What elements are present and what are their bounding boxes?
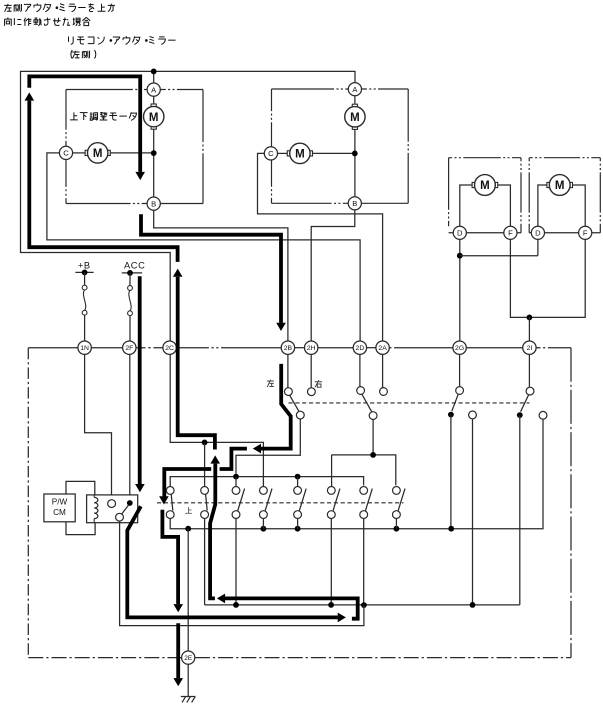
wire 2C down to column feed line y=442.4 feeding switch columns 2 and 4 [170,354,263,486]
mirror switch unit boundary right edge [570,348,572,658]
wire B left mirror to 2B: down, right along y=227.9, down to 2B [154,210,288,341]
wire C to horizontal motor M left mirror [73,152,88,154]
svg-text:D: D [535,229,541,238]
svg-text:ACC: ACC [124,261,145,271]
select switch pole2: wire 2D down to contact [359,354,361,386]
feed line y=454.9 for columns 6 and 8 from select pole2 [332,455,396,485]
connector 1N [78,341,91,354]
motor M box2 [547,182,550,187]
select switch pole2 lower contact [369,412,377,420]
wire branch down to column 2 upper contact [204,442,206,486]
label 上 (up) [185,507,192,513]
switch column 6 contacts and blade [333,489,340,513]
wire branch node D1-D2 [457,253,463,259]
svg-text:B: B [151,199,156,208]
P/W CM control module box [44,494,75,522]
svg-text:D: D [457,229,463,238]
select switch pole2 right contact wire from 2A [382,354,384,387]
svg-text:F: F [508,229,513,238]
terminal F box2 [579,226,592,239]
terminal A left mirror [147,83,160,96]
select switch linkage dashed line [289,402,530,404]
svg-text:2E: 2E [184,655,192,662]
label: component title リモコン・アウタ・ミラー [69,36,74,44]
bold path: corner stub at top left then right along y=76.4 and down x=140.2 to arrow at left mirror [29,76,140,171]
select switch pole3 open contact [469,411,477,419]
svg-text:M: M [350,112,360,124]
node mid left mirror [151,150,157,156]
remote outer mirror assembly (left) boundary box [66,89,147,91]
relay fixed open contact from 1N [108,500,116,508]
switch column 3 contacts and blade [237,489,244,513]
terminal D box2 [531,226,544,239]
bold path: relay blade through, down x=127.3, right along y=617.4 (arrow right) [127,506,337,617]
node feed branch to column 2 [202,440,208,446]
node bottom bus to ground line [185,526,191,532]
connector 2I [523,341,536,354]
label: (左側) [71,50,72,59]
label: condition text line1 左側アウタ・ミラーを上方 [4,4,11,12]
connector 2E [182,651,195,664]
wire motor M to F terminal box2 [570,185,585,226]
svg-text:2D: 2D [356,345,365,352]
bold path: stub up x=357.7 then left along y=598.4 ending arrow left [225,598,358,618]
bold path: ACC feed down to relay blade (arrow) [138,276,142,484]
select switch pole3 upper contact [456,387,464,395]
wire bottom bus node down to 2E (ground line) [187,529,189,651]
mirror switch unit boundary bottom edge [28,657,181,659]
bold path: stub up x=177.6 then left along y=247.2 then up left side x=29.3 to arrow [29,101,177,262]
svg-text:CM: CM [53,508,66,517]
power feed ACC bar [122,272,142,274]
relay coil [94,497,98,518]
terminal B left mirror [147,197,160,210]
select switch pole4 blade to closed contact [521,395,529,412]
wire motor M to node, node to B (left mirror) [153,127,155,197]
node bottom bus at column8 [394,526,400,532]
mirror switch unit boundary left edge [27,348,29,658]
relay moving blade [121,505,128,515]
door mirror motor box 2 boundary [529,157,600,159]
wire fuse to 2F [129,316,131,342]
switch column 1 contacts and blade [171,494,173,510]
motor M horizontal-adjust left mirror [85,150,88,155]
svg-text:M: M [149,112,159,124]
wire fuse to 1N [84,315,86,341]
relay coil loop bracket to P/W CM [66,481,95,534]
connector 2H [305,341,318,354]
wire motor M to D terminal box1 [460,185,475,226]
select switch pole1 right contact (右) [308,388,316,396]
select switch pole3 wire closed contact down to bottom bus [450,415,452,529]
select switch pole4 upper contact [526,387,534,395]
switch column 5 contacts and blade [299,489,306,513]
wire feed down to column 6 upper contact crossing top bus [331,455,333,487]
connector 2A [376,341,389,354]
node bottom bus at column4 [261,526,267,532]
select switch pole4: wire 2I down to contact [528,354,530,387]
direction switch bank linkage dashed line [157,502,404,504]
node select pole2 output on feed line [370,452,376,458]
fuse below ACC [129,273,131,286]
wire C left mirror to 2D: left, down x=46.9, right along y=239.9, down to 2D [47,153,360,341]
terminal C right mirror [264,147,277,160]
wire 2E to ground [187,664,189,696]
node bottom bus at column5 [295,526,301,532]
wire motor M to node, node to B (right mirror) [354,127,356,197]
wire B right mirror to 2H: down, left along y=226.5, down to 2H [311,210,355,341]
svg-text:B: B [352,199,357,208]
terminal B right mirror [348,197,361,210]
select switch pole4 closed contact node [517,412,523,418]
node top bus at column5 [295,474,301,480]
bold path return: through switch column1, down, right, down to arrow above bold bottom line [162,510,178,605]
svg-text:+B: +B [78,260,91,270]
connector 2F [123,341,136,354]
svg-text:2A: 2A [378,345,387,352]
relay fixed contact node from 2F [127,500,133,506]
terminal C left mirror [59,146,72,159]
node F junction to 2I [527,315,533,321]
door mirror motor box 1 boundary [449,157,521,159]
label: condition text line2 向に作動させた場合 [5,17,12,25]
label 左 [267,380,274,387]
select switch pole1 blade to lower contact [290,395,300,412]
svg-text:M: M [555,180,565,192]
node junction top feed to left mirror A [151,69,157,75]
bold path return: below 2B through select switch pole1 down to y=448.6 left to arrow [261,364,291,449]
label 上下調整モータ (up/down adjusting motor) [70,112,78,119]
bold path: stub up then left along y=435.2 then up x=177.7 through connector row to arrow [178,277,215,450]
svg-text:2I: 2I [527,345,533,352]
switch column 2 contacts and blade [206,494,208,510]
wire horizontal motor M to center node left mirror [108,152,152,154]
svg-text:F: F [583,229,588,238]
wire F1 down, right along y=317.4, up to F2 [510,239,585,317]
node mid right mirror [352,151,358,157]
terminal A right mirror [348,83,361,96]
ground symbol [181,697,196,703]
motor M vertical-adjust right mirror [352,104,357,107]
connector row line segments [28,347,78,349]
wire A to vertical motor M left mirror [153,96,155,106]
wire D-F bottom edge box2 [529,232,600,234]
terminal D box1 [453,226,466,239]
svg-text:M: M [480,180,490,192]
label 右 [315,380,322,387]
node output line at column3 [233,602,239,608]
output line y=604.9 from column2 corner right to select pole4 line [205,604,520,606]
wire top bus stub to column5 upper [297,477,299,487]
node output line at column6 [328,602,334,608]
wire top bus stub to column3 upper [235,477,237,487]
motor M horizontal-adjust right mirror [287,151,290,156]
wire D1 down to 2G with branch to D2 [459,239,461,341]
wire relay pivot down, right along y=625.6, up to output line node [120,521,364,626]
wire stub from top feed line down to A of left mirror [153,71,155,83]
bottom bus of switch bank [170,419,543,529]
top bus of switch bank [170,477,363,487]
wire C to horizontal motor M right mirror [278,152,290,154]
svg-text:2G: 2G [455,345,464,352]
power feed +B bar [75,271,93,273]
bold path: corner stub up x=210.1 with kink, up to arrow below switch feed [210,464,215,599]
select switch pole1 lower contact [296,411,304,419]
svg-text:P/W: P/W [52,497,68,506]
select switch pole1: wire 2B down to contact [287,354,289,387]
motor M box1 [472,182,475,187]
wire motor M to D terminal box2 [538,185,550,226]
bold path return: stub, down, left along y=469 to corner [220,449,247,469]
svg-text:2C: 2C [165,345,174,352]
svg-text:2H: 2H [307,345,316,352]
node top bus to column3 feed [233,474,239,480]
select switch pole3: wire 2G down to contact [459,354,461,386]
wire horizontal motor M to center node right mirror [310,152,352,154]
relay blade pivot contact [116,513,124,521]
select switch pole2 upper contact [357,387,365,395]
motor M vertical-adjust left mirror [151,104,156,107]
svg-text:M: M [93,148,103,160]
select switch pole3 wire open contact down to output line [472,419,474,605]
relay box [87,495,138,523]
svg-text:2B: 2B [284,345,293,352]
svg-text:C: C [63,149,69,158]
wire 1N down to relay contact [85,354,112,499]
select switch pole1 upper contact (左) [285,388,293,396]
switch column 8 contacts and blade [398,489,405,513]
wire motor M to F terminal box1 [495,185,510,226]
switch column 4 contacts and blade [265,489,272,513]
bold path return: from left mirror B down and right along y=234.7 then down to arrow at 2B [141,214,281,323]
connector 2G [453,341,466,354]
wire C right mirror to 2A: left, down x=257.5, right along y=213.9, down to 2A [258,153,383,341]
node output line at column7 [361,602,367,608]
fuse below +B [84,272,86,285]
select switch pole2 blade [362,394,372,412]
svg-text:2F: 2F [125,345,133,352]
connector 2B [281,341,294,354]
select switch pole4 wire closed contact down crossing bus to output line corner [519,415,521,605]
wire node down to 2I [528,317,530,341]
select switch pole2 right contact [380,388,388,396]
terminal F box1 [504,226,517,239]
select switch pole1 wire lower contact down to top bus feed [236,419,300,474]
wire 2F down to relay fixed contact [129,354,131,500]
node bottom bus at select pole3 contact [448,526,454,532]
wire D-F bottom edge box1 [449,232,521,234]
select switch pole3 closed contact node [448,412,454,418]
select switch pole2 wire lower contact down to y=454.9 line [372,420,374,455]
wire A to vertical motor M right mirror [354,96,356,107]
select switch pole4 open contact [539,411,547,419]
svg-text:M: M [295,149,305,161]
select switch pole3 blade to closed contact [452,394,458,411]
bold path return: below crossing down to ground arrow [176,623,180,678]
connector 2C [163,341,176,354]
switch column 7 contacts and blade [365,489,372,513]
wire D2 down to branch [537,239,539,255]
node output line at select pole3 open contact [470,602,476,608]
select switch pole1 right contact wire from 2H [310,354,312,387]
svg-text:C: C [268,149,274,158]
connector 2D [353,341,366,354]
wire 2C feed: 2C up, left along y=252.5, up left edge x=20.5, right along y=71.4, down to A of right mirror [21,71,356,341]
svg-text:1N: 1N [80,345,89,352]
remote outer mirror assembly (right) boundary box [272,88,349,90]
